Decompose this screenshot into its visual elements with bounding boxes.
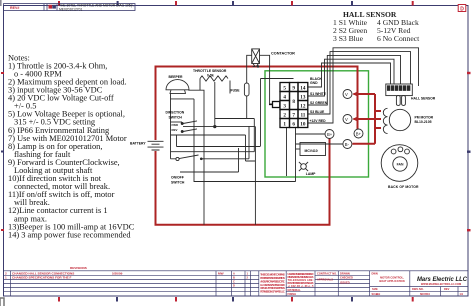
svg-text:MCV410: MCV410 xyxy=(305,149,318,153)
svg-text:WITHOUT PRIOR WRITTEN: WITHOUT PRIOR WRITTEN xyxy=(260,286,285,290)
svg-text:SCALE: SCALE xyxy=(372,292,381,296)
svg-text:CHANGED SPECIFICATIONS FOR THE: CHANGED SPECIFICATIONS FOR THE F xyxy=(12,276,72,280)
svg-text:FINISH: FINISH xyxy=(288,292,297,296)
svg-text:8: 8 xyxy=(292,99,295,105)
svg-text:+/- 1/32 .XX +/- .03 +/- .5: +/- 1/32 .XX +/- .03 +/- .5 xyxy=(288,284,315,288)
svg-text:REVISIONS: REVISIONS xyxy=(70,266,87,270)
svg-text:S1 WHITE: S1 WHITE xyxy=(310,92,327,96)
svg-text:1: 1 xyxy=(5,276,7,280)
svg-text:V: V xyxy=(345,117,348,122)
svg-text:BOAT APPLICATION: BOAT APPLICATION xyxy=(379,279,404,283)
svg-text:REV#: REV# xyxy=(10,6,19,10)
svg-text:PROPRIETARY INFORMATION: PROPRIETARY INFORMATION xyxy=(260,276,285,280)
svg-text:HALL SENSOR: HALL SENSOR xyxy=(411,97,436,101)
svg-text:B-: B- xyxy=(345,142,350,147)
svg-text:THIS DOCUMENT CONTAINS: THIS DOCUMENT CONTAINS xyxy=(260,273,285,277)
svg-text:3: 3 xyxy=(283,103,286,109)
svg-text:C: C xyxy=(233,280,235,284)
svg-text:SWITCH: SWITCH xyxy=(171,181,185,185)
svg-text:6: 6 xyxy=(292,121,295,127)
svg-text:SWITCH: SWITCH xyxy=(169,115,183,119)
svg-text:5: 5 xyxy=(283,85,286,91)
svg-text:10: 10 xyxy=(300,121,306,127)
svg-text:B+: B+ xyxy=(356,132,362,137)
svg-text:11: 11 xyxy=(300,112,305,118)
svg-text:Mars Electric LLC: Mars Electric LLC xyxy=(417,276,467,283)
svg-text:BEEPER: BEEPER xyxy=(169,75,183,79)
svg-text:WWW.MARSELECTRICLLC.COM: WWW.MARSELECTRICLLC.COM xyxy=(421,282,461,286)
svg-text:S3 BLUE: S3 BLUE xyxy=(310,110,325,114)
svg-text:REV: REV xyxy=(444,287,450,291)
svg-text:ON/OFF: ON/OFF xyxy=(171,175,184,179)
svg-text:D: D xyxy=(460,6,464,12)
svg-text:MOTOR CONTROL,: MOTOR CONTROL, xyxy=(380,276,404,280)
svg-text:CONTACTOR: CONTACTOR xyxy=(271,52,295,56)
svg-text:S2 GREEN: S2 GREEN xyxy=(310,101,328,105)
svg-text:PM MOTOR: PM MOTOR xyxy=(415,116,434,120)
svg-text:5/20/09: 5/20/09 xyxy=(112,272,123,276)
svg-text:A: A xyxy=(233,271,235,275)
svg-text:SIZE: SIZE xyxy=(372,287,378,291)
svg-text:MW: MW xyxy=(218,272,224,276)
svg-text:CONTRACT NO.: CONTRACT NO. xyxy=(317,271,337,275)
svg-text:GND: GND xyxy=(310,81,318,85)
svg-text:6 No Connect: 6 No Connect xyxy=(377,34,420,43)
svg-text:1/1: 1/1 xyxy=(460,292,464,296)
svg-text:3 S3 Blue: 3 S3 Blue xyxy=(333,34,364,43)
svg-text:FWD: FWD xyxy=(172,123,179,127)
svg-text:PERMISSION OF MARS LLC: PERMISSION OF MARS LLC xyxy=(260,290,285,294)
svg-text:D: D xyxy=(233,284,235,288)
svg-text:V: V xyxy=(345,92,348,97)
svg-text:B: B xyxy=(233,276,235,280)
svg-text:DWG NO.: DWG NO. xyxy=(412,287,424,291)
svg-text:BATTERY: BATTERY xyxy=(130,142,146,146)
svg-text:9: 9 xyxy=(292,85,295,91)
svg-text:12: 12 xyxy=(300,103,306,109)
svg-text:FUSE: FUSE xyxy=(231,89,241,93)
svg-text:CHECKED: CHECKED xyxy=(340,275,353,279)
svg-text:2: 2 xyxy=(283,112,286,118)
svg-text:ME0201012701: ME0201012701 xyxy=(59,7,82,11)
svg-text:0-5k: 0-5k xyxy=(207,73,214,77)
svg-text:FAN: FAN xyxy=(397,163,404,167)
svg-text:4: 4 xyxy=(283,94,286,100)
svg-text:DIRECTION: DIRECTION xyxy=(166,111,185,115)
svg-text:14: 14 xyxy=(300,85,306,91)
svg-text:REV: REV xyxy=(172,128,178,132)
svg-text:1: 1 xyxy=(283,121,286,127)
svg-text:LLC AND MAY NOT BE USED: LLC AND MAY NOT BE USED xyxy=(260,283,285,287)
svg-text:DWN: DWN xyxy=(372,271,378,275)
svg-text:DRAWN: DRAWN xyxy=(340,271,350,275)
svg-text:AND DATA OF MARS ELECTRIC: AND DATA OF MARS ELECTRIC xyxy=(260,279,285,283)
svg-text:MC0510: MC0510 xyxy=(420,292,430,296)
svg-text:ISSUED: ISSUED xyxy=(340,280,350,284)
svg-text:13: 13 xyxy=(300,94,306,100)
svg-text:B+: B+ xyxy=(327,132,333,137)
svg-text:+12V RED: +12V RED xyxy=(310,119,327,123)
svg-text:7: 7 xyxy=(292,112,295,118)
svg-text:MATERIAL: MATERIAL xyxy=(288,288,302,292)
svg-text:BL10-2105: BL10-2105 xyxy=(415,120,432,124)
svg-text:BACK OF MOTOR: BACK OF MOTOR xyxy=(388,185,419,189)
svg-text:14) 3 amp power fuse recommend: 14) 3 amp power fuse recommended xyxy=(8,230,131,239)
svg-text:LAMP: LAMP xyxy=(306,172,316,176)
svg-text:APPROVALS: APPROVALS xyxy=(317,277,333,281)
